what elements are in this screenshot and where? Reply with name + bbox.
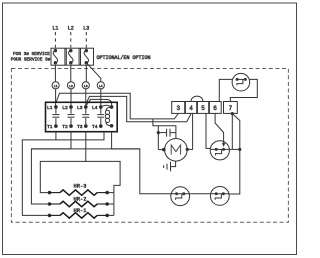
node: motor left junction [163,148,166,151]
wire: contactor L3 to coil top (arc) [86,99,111,107]
svg-text:7: 7 [229,105,233,112]
wire: heater right bus stub HR-3 [107,192,114,194]
svg-text:6: 6 [213,105,217,112]
wire: fuse F1 to terminal circle L1 [54,65,56,82]
wire: heater right bus stub HR-1 [107,214,114,216]
svg-text:FOR 3ø SERVICE: FOR 3ø SERVICE [13,52,50,57]
heater resistor HR-1 [48,208,108,218]
wire: terminal 4 to motor right lead [187,113,192,149]
wire: heater right bus stub HR-2 [107,203,114,205]
wire: fuse F2 to terminal circle L2 [70,65,72,82]
protector P3 [210,187,229,206]
contactor pole 2 (L2-T2 contact) [62,105,74,130]
wire: circle L3 to contactor L3 [85,89,87,107]
svg-text:T4: T4 [92,124,98,130]
overload protector P1 [210,141,229,160]
wire: dashed lead from L3 label [85,32,87,48]
fuse block F1-F3 (box) [51,48,94,65]
wire: bus T2 to coil-bottom run [31,148,139,150]
terminal L2 [67,82,74,89]
contactor pole 1 (L1-T1 contact) [47,105,59,130]
svg-text:L2: L2 [69,85,73,88]
heater resistor HR-3 [48,184,108,196]
wire: dashed lead from L1 label [54,32,56,48]
wire: jumper arc terminal 4 to 5 [191,96,203,101]
node: motor right junction [186,148,188,150]
contactor K1 (box) [46,102,118,131]
wire: T3 run [40,132,86,193]
terminal strip (boxes 3-7) [172,102,238,114]
svg-text:T1: T1 [47,124,53,130]
wire: contactor L3 to terminal 4 (control feed) [86,96,191,121]
wire: circle L4 to contactor L4 [100,89,102,107]
contactor pole 3 (L3-T3 contact) [77,105,89,130]
wire: contactor L4 to coil top (small arc) [101,105,112,107]
heater resistor HR-2 [48,197,108,207]
wire: capacitor branch vertical [157,126,159,150]
terminal L4 [97,82,104,89]
svg-text:L3: L3 [77,105,83,111]
contactor coil K1 [105,106,113,128]
svg-text:POUR SERVICE 3ø: POUR SERVICE 3ø [11,58,51,63]
svg-text:T2: T2 [62,124,68,130]
fuse F2 [69,49,74,64]
wire: coil bottom to protector P2 [112,132,171,194]
wire: T2 to heater HR-2 [31,132,71,204]
fuse F1 [53,49,58,64]
svg-text:L1: L1 [52,26,58,32]
enclosure boundary (dashed) [11,69,288,223]
wire: pressure switch to terminal 7 [230,79,257,101]
svg-text:L4: L4 [99,85,103,88]
svg-text:5: 5 [201,105,205,112]
svg-text:L4: L4 [92,105,98,111]
contactor pole 4 (L4-T4 contact) [92,105,104,130]
protector P2 [171,187,190,206]
wire: motor left lead [158,149,164,151]
wire: terminal 7 to overload right lead [231,114,233,150]
pressure switch S1 [232,73,250,91]
wire: dashed lead from L2 label [70,32,72,48]
node: terminal 7 junction [231,113,233,115]
wire: T3 to heater right bus [86,161,120,215]
wire: terminal 5 to overload left lead [206,113,210,148]
terminal L3 [82,82,89,89]
terminal L1 [52,82,59,89]
svg-text:L3: L3 [83,26,89,32]
wire: circle L2 to contactor L2 [70,89,72,107]
wire: motor top connector [153,119,176,139]
svg-text:L2: L2 [68,26,74,32]
svg-text:L1: L1 [54,85,58,88]
node: overload right junction [239,148,241,150]
svg-text:4: 4 [189,105,193,112]
wire: terminal 6 to overload actuator arrow [215,113,224,143]
svg-text:L1: L1 [47,105,53,111]
wire: T1 drop [55,132,57,140]
note: for 3-phase service [11,52,51,63]
wire: T1/T4 bus to heater HR-1 [22,132,104,216]
wire: circle L1 to contactor L1 [55,89,57,107]
wire: protector P2 to P3 [190,193,211,195]
wire: overload right lead [229,148,240,150]
run capacitor C1 [157,129,176,137]
overload actuator arrow [222,143,225,147]
wire: terminal 6 to pressure switch [219,79,232,101]
wire: terminal 7 to protector P3 right lead [229,114,240,194]
svg-text:T3: T3 [77,124,83,130]
svg-text:3: 3 [176,105,180,112]
svg-text:HR-3: HR-3 [74,184,87,190]
ground [164,162,171,172]
wire: fuse F3 to terminal circle L3 [85,65,87,82]
motor M1 [165,139,188,162]
wire: fuse F3 to terminal circle L4 (diagonal, optional feed) [87,63,101,82]
svg-text:L2: L2 [62,105,68,111]
svg-text:L3: L3 [84,85,88,88]
svg-text:OPTIONAL/EN OPTION: OPTIONAL/EN OPTION [97,55,151,61]
fuse F3 [84,49,89,64]
wire: motor bottom to ground [171,161,176,167]
wire: contactor L1 to terminal 3 (control feed) [56,93,178,119]
